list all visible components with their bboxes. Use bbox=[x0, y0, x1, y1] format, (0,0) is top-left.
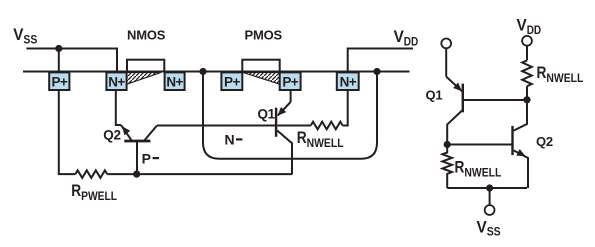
diffusion N+ well contact bbox=[337, 72, 359, 90]
svg-text:PMOS: PMOS bbox=[245, 27, 283, 42]
wire VSS terminal bbox=[489, 188, 491, 205]
svg-text:N+: N+ bbox=[340, 75, 357, 90]
NMOS channel hatch bbox=[127, 72, 161, 84]
N-well boundary bbox=[203, 72, 377, 159]
transistor Q2 (lateral NPN) bbox=[116, 90, 121, 125]
resistor R_PWELL bbox=[75, 170, 107, 178]
terminal circle VSS bbox=[485, 205, 495, 215]
wire R_PWELL branch bbox=[59, 90, 76, 174]
junction dot VSS/P+ bbox=[55, 45, 62, 52]
wire VSS rail bbox=[27, 49, 118, 73]
resistor R_NWELL lower bbox=[442, 145, 452, 189]
svg-text:Q2: Q2 bbox=[536, 134, 553, 149]
resistor R_NWELL (cross-section) bbox=[277, 125, 311, 127]
svg-text:P: P bbox=[142, 150, 151, 166]
diffusion P+ PMOS source bbox=[280, 72, 301, 90]
wire VDD terminal to R_NWELL bbox=[526, 46, 528, 61]
svg-text:NMOS: NMOS bbox=[127, 27, 166, 42]
transistor Q2 base bar bbox=[511, 126, 513, 155]
wire bottom rail bbox=[447, 187, 527, 189]
NMOS gate bbox=[127, 60, 164, 72]
arrowhead Q2 emitter bbox=[122, 126, 130, 135]
junction dot node A bbox=[523, 96, 530, 103]
wire Q1 emitter from terminal bbox=[445, 48, 447, 76]
wire R_NWELL to node A bbox=[526, 86, 528, 99]
diffusion P+ PMOS drain bbox=[221, 72, 242, 90]
svg-text:Q1: Q1 bbox=[426, 87, 443, 102]
junction dot node B bbox=[444, 141, 451, 148]
diffusion N+ NMOS drain bbox=[165, 72, 185, 90]
wire Q2 collector bbox=[514, 100, 527, 131]
wire VDD rail bbox=[348, 49, 413, 73]
wire R_PWELL to P- node bbox=[107, 173, 137, 175]
PMOS channel hatch bbox=[243, 72, 280, 84]
junction dot N-well left bbox=[199, 68, 206, 75]
svg-text:P+: P+ bbox=[282, 75, 298, 90]
svg-text:N: N bbox=[225, 132, 235, 148]
wire VSS to P+ substrate contact bbox=[58, 49, 60, 73]
wire Q1 collector bbox=[447, 111, 462, 145]
diffusion P+ substrate contact bbox=[49, 72, 69, 90]
arrowhead Q2 emitter (equivalent) bbox=[516, 149, 525, 156]
junction dot N-well right bbox=[373, 68, 380, 75]
PMOS gate bbox=[242, 60, 279, 72]
transistor Q1 base bar bbox=[462, 84, 464, 113]
svg-text:Q1: Q1 bbox=[258, 106, 276, 121]
svg-text:P+: P+ bbox=[51, 75, 67, 90]
junction dot VSS rail bbox=[486, 184, 493, 191]
terminal circle Q1 emitter bbox=[441, 39, 451, 49]
svg-text:N+: N+ bbox=[108, 75, 125, 90]
wire Q2 collector to Q1 base bbox=[157, 125, 275, 127]
wire Q2 emitter bbox=[514, 150, 528, 188]
junction dot P- node bbox=[133, 171, 140, 178]
svg-text:P+: P+ bbox=[224, 75, 240, 90]
wire P- node to Q1 collector bbox=[137, 173, 293, 175]
wire Q1 base to node A bbox=[463, 99, 527, 101]
wire node B to Q2 base bbox=[447, 144, 512, 146]
substrate surface line bbox=[23, 71, 410, 73]
svg-text:Q2: Q2 bbox=[103, 128, 121, 143]
transistor Q1 (vertical PNP) bbox=[290, 90, 292, 102]
resistor R_NWELL upper bbox=[522, 60, 532, 86]
diffusion N+ NMOS source bbox=[106, 72, 126, 90]
arrowhead Q1 emitter bbox=[278, 107, 287, 116]
arrowhead Q1 emitter (equivalent) bbox=[453, 83, 462, 92]
svg-text:N+: N+ bbox=[166, 75, 183, 90]
terminal circle VDD bbox=[522, 36, 532, 46]
